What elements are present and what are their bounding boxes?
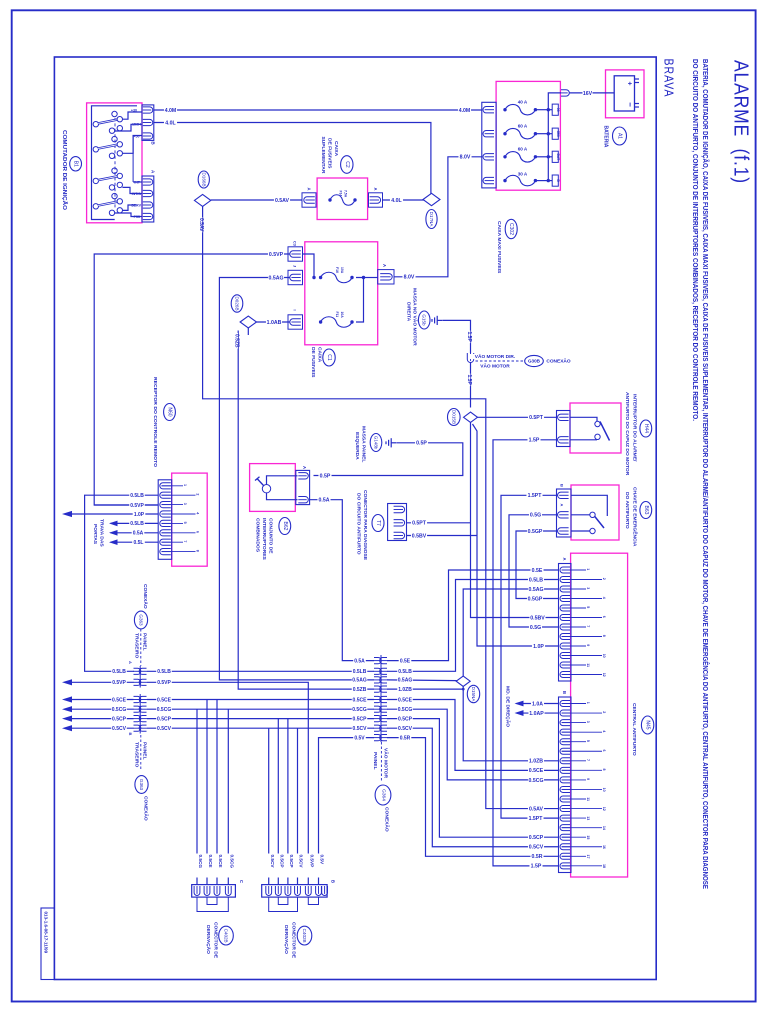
derivation connector C housing: [192, 885, 236, 898]
labels above derivation connector B: [266, 854, 272, 878]
painel traseiro pair 0.5LB: [134, 668, 141, 674]
N45 connector B housing: [559, 697, 572, 873]
svg-text:N45: N45: [645, 720, 651, 729]
svg-text:D015B: D015B: [451, 410, 456, 424]
svg-text:0.5E: 0.5E: [400, 658, 411, 664]
svg-text:1: 1: [183, 484, 187, 486]
N45 designator: [641, 716, 653, 734]
wire 0.5CG tap to C pin4: [227, 709, 229, 884]
wire 0.5CP tap to B pin3: [287, 719, 289, 885]
junction pair 0.5CE/0.5CE: [374, 696, 381, 702]
wire 4.0M ignition to maxi fuse: [154, 109, 482, 111]
svg-text:BATERIA: BATERIA: [603, 126, 609, 148]
svg-text:16: 16: [602, 845, 606, 849]
svg-text:14: 14: [602, 826, 606, 830]
wire 0.5PT D015B to H44: [478, 416, 557, 418]
labels above derivation connector C: [194, 854, 200, 878]
svg-text:H44: H44: [643, 424, 649, 433]
painel interface line B: [139, 694, 141, 734]
svg-text:DERIVAÇÃO: DERIVAÇÃO: [205, 925, 212, 954]
svg-text:0.5CE: 0.5CE: [112, 697, 127, 703]
svg-text:P55: P55: [134, 215, 140, 219]
svg-text:SUPLEMENTAR: SUPLEMENTAR: [320, 137, 326, 174]
svg-text:SERV: SERV: [131, 203, 141, 207]
svg-text:2: 2: [196, 493, 200, 495]
G363 dashed link bottom: [140, 735, 142, 771]
C2 designator: [341, 156, 353, 174]
svg-text:T7: T7: [375, 520, 381, 526]
svg-text:0.5AV: 0.5AV: [198, 218, 204, 232]
svg-text:CONEXÃO: CONEXÃO: [546, 358, 571, 365]
ignition switch designator B1: [70, 157, 82, 171]
wire 0.5AG C1 to junction: [219, 278, 374, 680]
wire 1.0P N60 pin4 arrow trava das portas: [70, 513, 159, 515]
connector diamond D15NA: [456, 676, 470, 686]
svg-text:D15NA: D15NA: [471, 687, 476, 703]
svg-text:C302: C302: [508, 223, 514, 235]
remote receiver N60 box: [172, 473, 208, 566]
svg-text:30 A: 30 A: [518, 171, 528, 176]
wire 0.5LB N60 pin2 to painel traseiro: [85, 495, 159, 671]
svg-text:ESQUERDA: ESQUERDA: [354, 432, 360, 460]
svg-text:17: 17: [586, 855, 590, 859]
svg-text:0.5VP: 0.5VP: [130, 503, 144, 509]
N45 pin B3: [560, 720, 570, 726]
wire 0.5GP B63 to central A4: [516, 531, 559, 599]
svg-text:B: B: [331, 880, 336, 883]
N60 pin housing: [158, 480, 172, 560]
wire 0.5CG junction to central B9: [387, 709, 559, 780]
svg-text:0.5CG: 0.5CG: [352, 707, 367, 713]
svg-text:0.5R: 0.5R: [532, 854, 543, 860]
svg-text:G30B: G30B: [528, 359, 541, 364]
connector diamond D015B: [464, 412, 478, 422]
N60 pin 6: [160, 530, 171, 536]
svg-text:COMUTADOR DE IGNIÇÃO: COMUTADOR DE IGNIÇÃO: [61, 130, 68, 210]
svg-text:8: 8: [196, 550, 200, 552]
svg-text:9: 9: [586, 644, 590, 646]
C1 pin J2: [288, 270, 303, 284]
svg-text:0.5V: 0.5V: [354, 735, 365, 741]
maxi fuse pin 3: [483, 154, 494, 160]
painel traseiro pair 0.5CE: [134, 696, 141, 702]
svg-text:1.5P: 1.5P: [529, 438, 540, 444]
svg-text:0.5LB: 0.5LB: [130, 493, 144, 499]
maxi fuse pin 1: [483, 107, 494, 113]
svg-text:0.5CP: 0.5CP: [353, 716, 368, 722]
svg-text:0.5G: 0.5G: [530, 513, 541, 519]
H44 switch symbol: [570, 417, 597, 421]
designator G148b: [370, 434, 382, 452]
battery designator A1: [613, 127, 627, 145]
designator G363 top: [134, 611, 147, 629]
svg-text:0.5ZB: 0.5ZB: [353, 687, 367, 693]
svg-text:0.5CE: 0.5CE: [208, 855, 213, 868]
svg-text:0.5VP: 0.5VP: [157, 680, 171, 686]
N45 pin B7: [560, 758, 570, 764]
N45 pin B1: [560, 701, 570, 707]
svg-text:D17NA: D17NA: [429, 212, 434, 228]
svg-text:J: J: [293, 265, 297, 267]
svg-text:0.5CV: 0.5CV: [112, 726, 127, 732]
svg-text:0.5LB: 0.5LB: [130, 521, 144, 527]
svg-text:F16: F16: [335, 267, 339, 273]
svg-text:A: A: [382, 264, 387, 267]
designator C402B right: [297, 926, 312, 945]
svg-text:0.5CP: 0.5CP: [157, 716, 172, 722]
svg-text:+: +: [626, 81, 633, 85]
svg-text:1: 1: [586, 702, 590, 704]
C2 right pin A: [370, 197, 381, 203]
N45 pin A3: [560, 586, 570, 592]
combined switches B62 box: [250, 464, 296, 512]
svg-text:INT/A: INT/A: [132, 192, 142, 196]
svg-text:CONEXÃO: CONEXÃO: [143, 796, 150, 821]
svg-text:15/54: 15/54: [132, 123, 141, 127]
svg-text:G364: G364: [381, 789, 387, 801]
svg-text:MASSA NO VÃO MOTOR: MASSA NO VÃO MOTOR: [412, 288, 419, 346]
designator G15b: [418, 311, 430, 329]
ignition switch internal wires: [122, 112, 141, 119]
wire 4.0L C2 to D17NA: [383, 199, 424, 201]
svg-text:0.5CE: 0.5CE: [398, 697, 413, 703]
svg-text:1.0A: 1.0A: [532, 701, 543, 707]
wire D026B stem: [238, 326, 248, 331]
N45 pin B9: [560, 777, 570, 783]
svg-text:1: 1: [586, 568, 590, 570]
svg-text:0.5CE: 0.5CE: [353, 697, 368, 703]
painel traseiro pair 0.5CP: [134, 716, 141, 722]
svg-text:4: 4: [196, 512, 200, 514]
svg-text:8.0V: 8.0V: [460, 155, 471, 161]
derivation connector C bridges: [207, 897, 217, 904]
svg-text:0.5CV: 0.5CV: [398, 726, 413, 732]
svg-text:DE FUSIVEIS: DE FUSIVEIS: [310, 347, 316, 378]
svg-text:0.5GP: 0.5GP: [528, 529, 543, 535]
svg-text:0.5V: 0.5V: [320, 855, 325, 866]
B63 switch symbol: [571, 495, 607, 516]
svg-text:0.5BV: 0.5BV: [530, 615, 545, 621]
N60 pin 8: [160, 549, 171, 555]
ignition switch stage 4 contacts: [93, 204, 98, 209]
svg-text:3: 3: [586, 721, 590, 723]
svg-text:C402B: C402B: [224, 929, 229, 943]
svg-text:C2: C2: [344, 161, 350, 168]
N60 pin 7: [160, 539, 171, 545]
svg-text:8: 8: [602, 769, 606, 771]
ignition switch stage 2 contacts: [93, 147, 98, 152]
svg-text:1.5P: 1.5P: [531, 864, 542, 870]
svg-text:1.5P: 1.5P: [466, 332, 472, 343]
svg-text:1.0ZB: 1.0ZB: [398, 687, 412, 693]
designator D026B: [231, 295, 243, 312]
svg-text:30: 30: [556, 108, 560, 112]
C1 pin I1: [288, 315, 303, 329]
wire 0.5P G148b to B62 pin A: [314, 443, 463, 476]
svg-text:C50: C50: [556, 131, 560, 137]
wire 0.5R junction to central B17: [387, 738, 559, 857]
svg-text:0.5GP: 0.5GP: [528, 596, 543, 602]
svg-text:0.5CP: 0.5CP: [280, 855, 285, 868]
central antifurto N45 box: [571, 553, 628, 877]
svg-text:4: 4: [602, 730, 606, 732]
svg-text:6: 6: [196, 531, 200, 533]
connector diamond D166B: [194, 194, 210, 206]
svg-text:60 A: 60 A: [518, 123, 528, 128]
svg-text:0.5LB: 0.5LB: [398, 669, 412, 675]
wire battery 16V: [569, 92, 614, 94]
N45 pin B10: [560, 786, 570, 792]
svg-text:B: B: [128, 733, 133, 736]
svg-text:A: A: [562, 558, 567, 561]
connector diamond D17NA: [423, 193, 440, 205]
svg-text:G15b: G15b: [422, 314, 427, 326]
svg-text:BRAVA: BRAVA: [662, 59, 676, 98]
svg-text:1.5P: 1.5P: [466, 375, 472, 386]
wire 0.5VP N60 pin3: [94, 504, 158, 506]
wire 0.5VP painel row: [70, 681, 134, 683]
svg-text:0.5P: 0.5P: [320, 473, 331, 479]
designator D17NA: [426, 210, 437, 229]
svg-text:0.5E: 0.5E: [532, 568, 543, 574]
svg-text:5: 5: [183, 522, 187, 524]
wire 0.5CE junction to central B8: [387, 700, 559, 771]
svg-text:N60: N60: [167, 407, 173, 416]
svg-text:0.5CE: 0.5CE: [157, 697, 172, 703]
svg-text:CENTRAL ANTIFURTO: CENTRAL ANTIFURTO: [631, 703, 637, 756]
svg-text:F11: F11: [335, 312, 339, 318]
svg-text:BATERIA, COMUTADOR DE IGNIÇÃO,: BATERIA, COMUTADOR DE IGNIÇÃO, CAIXA DE …: [701, 59, 710, 889]
C1 designator: [323, 349, 335, 366]
svg-text:8: 8: [602, 635, 606, 637]
junction pair 0.5CG/0.5CG: [374, 706, 381, 712]
svg-text:0.5A: 0.5A: [133, 531, 144, 537]
svg-text:C: C: [239, 880, 244, 883]
svg-text:0.5CG: 0.5CG: [398, 707, 413, 713]
designator C402B left: [219, 926, 234, 945]
svg-text:DO CIRCUITO ANTIFURTO: DO CIRCUITO ANTIFURTO: [356, 493, 362, 555]
svg-text:A: A: [373, 188, 378, 191]
svg-text:10: 10: [602, 788, 606, 792]
svg-text:D026B: D026B: [235, 296, 240, 310]
derivation connector B bridges: [278, 897, 288, 904]
svg-text:−: −: [626, 102, 635, 107]
painel interface line A: [139, 666, 141, 688]
svg-text:0.5CG: 0.5CG: [157, 707, 172, 713]
N45 pin B13: [560, 815, 570, 821]
N45 pin A11: [560, 662, 570, 668]
svg-text:0.5LB: 0.5LB: [157, 669, 171, 675]
ground G148b massa painel esquerda: [385, 441, 387, 444]
svg-text:0.5VP: 0.5VP: [269, 252, 284, 258]
wire 0.5LB painel to junction: [147, 670, 374, 672]
wire 0.5CP junction to central B15: [387, 719, 559, 838]
diagnostic connector T7 housing: [388, 504, 407, 541]
svg-text:CONEXÃO: CONEXÃO: [384, 807, 391, 832]
wire D015B down to 0.5BV row: [471, 423, 559, 618]
N45 pin A5: [560, 605, 570, 611]
svg-text:CAIXA: CAIXA: [333, 141, 339, 157]
svg-text:60 A: 60 A: [518, 147, 528, 152]
painel traseiro pair 0.5VP: [134, 679, 141, 685]
svg-text:0.5LB: 0.5LB: [529, 577, 543, 583]
svg-text:1.5PT: 1.5PT: [529, 816, 544, 822]
maxi fuse internal bus: [548, 93, 561, 181]
H44 designator: [640, 420, 652, 437]
B62 pin housing: [296, 470, 310, 504]
page border inner frame: [54, 57, 656, 980]
svg-text:CONECTOR DE: CONECTOR DE: [291, 922, 297, 959]
C1 pin C3: [288, 247, 303, 261]
svg-text:16V: 16V: [583, 91, 593, 97]
svg-text:0.5CP: 0.5CP: [398, 716, 413, 722]
svg-text:4.0L: 4.0L: [391, 198, 402, 204]
svg-text:4.0L: 4.0L: [165, 120, 176, 126]
N45 pin A6: [560, 615, 570, 621]
wire 0.5V junction row to connector B pin6: [319, 738, 375, 885]
svg-text:+30: +30: [131, 108, 137, 112]
B63 designator: [640, 502, 652, 519]
N45 pin B5: [560, 739, 570, 745]
painel traseiro pair 0.5CV: [134, 725, 141, 731]
svg-text:VÃO MOTOR DIR.: VÃO MOTOR DIR.: [475, 353, 515, 360]
N45 pin B18: [560, 863, 570, 869]
svg-text:0.5CP: 0.5CP: [112, 716, 127, 722]
wire 0.5E junction to central A1: [387, 570, 559, 661]
svg-text:4.0M: 4.0M: [165, 108, 177, 114]
junction pair 0.5CV/0.5CV: [374, 725, 381, 731]
wire 1.0A central B1 arrow md de direcao: [517, 703, 559, 705]
wire 0.5LB junction to central A2: [387, 580, 559, 672]
battery A1 box: [606, 70, 645, 118]
svg-text:6: 6: [602, 616, 606, 618]
H44 pin housing: [557, 411, 571, 447]
svg-text:4: 4: [602, 597, 606, 599]
N45 pin A1: [560, 567, 570, 573]
svg-text:15: 15: [586, 835, 590, 839]
svg-text:C1: C1: [326, 354, 332, 361]
connector diamond D026B: [240, 316, 256, 328]
wire 1.0AB C1 to D026B: [256, 321, 289, 323]
svg-text:0.5CV: 0.5CV: [157, 726, 172, 732]
svg-text:BAT: BAT: [556, 153, 560, 161]
svg-text:3: 3: [183, 503, 187, 505]
N60 pin 1: [160, 483, 171, 489]
maxi fuse F4 30A: [503, 179, 506, 182]
svg-text:40 A: 40 A: [518, 99, 528, 104]
svg-text:0.5CV: 0.5CV: [529, 845, 544, 851]
svg-text:ANTIFURTO DO CAPUZ DO MOTOR: ANTIFURTO DO CAPUZ DO MOTOR: [624, 392, 630, 476]
svg-text:INTERRUPTORES: INTERRUPTORES: [261, 518, 267, 560]
wire 0.5CP tap to B pin2: [277, 719, 279, 885]
designator G363 bottom: [135, 776, 148, 794]
svg-text:0.5CE: 0.5CE: [218, 855, 223, 868]
svg-text:0.5A: 0.5A: [319, 498, 330, 504]
svg-text:PAINEL: PAINEL: [372, 752, 378, 770]
svg-text:7: 7: [183, 540, 187, 542]
svg-text:0.5CE: 0.5CE: [529, 768, 544, 774]
wire 0.5ZB D026B to junction: [247, 328, 249, 335]
designator G364: [375, 785, 391, 805]
svg-text:7: 7: [586, 625, 590, 627]
svg-text:CONECTOR DE: CONECTOR DE: [213, 922, 219, 959]
ignition pin housing A: [142, 176, 154, 222]
svg-text:6: 6: [602, 749, 606, 751]
battery feed terminal: [560, 90, 569, 96]
svg-text:TRASEIRO: TRASEIRO: [133, 742, 139, 767]
svg-text:5: 5: [586, 606, 590, 608]
wire 4.0L ignition to D17NA: [154, 123, 431, 194]
svg-text:F14: F14: [339, 191, 343, 197]
svg-text:0.5CV: 0.5CV: [299, 855, 304, 869]
svg-text:A: A: [302, 466, 307, 469]
ignition switch inner frame: [92, 106, 138, 220]
derivation connector B housing: [262, 885, 327, 898]
wire 0.5CV tap to B pin4: [297, 728, 299, 884]
wire 0.5AV D166B down and across to central B12: [203, 206, 559, 808]
svg-text:0.5G: 0.5G: [530, 625, 541, 631]
svg-text:PAINEL: PAINEL: [142, 742, 148, 760]
svg-text:INTERRUPTOR DO ALARME/: INTERRUPTOR DO ALARME/: [632, 394, 638, 462]
designator D015B: [448, 409, 461, 426]
svg-text:ALARME (f.1): ALARME (f.1): [730, 60, 752, 184]
maxi fuse pin 2: [483, 131, 494, 137]
C1 fuse F11 10A: [319, 320, 322, 323]
wire 1.5P ground to D015B with inline connector: [442, 320, 470, 353]
svg-text:0.5PT: 0.5PT: [529, 415, 544, 421]
N60 pin 2: [160, 492, 171, 498]
svg-text:0.5CG: 0.5CG: [112, 707, 127, 713]
svg-text:C402B: C402B: [302, 929, 307, 943]
N45 pin A8: [560, 634, 570, 640]
wire 0.5G B63 to central A7: [509, 515, 559, 627]
svg-text:A: A: [560, 504, 565, 507]
svg-text:2: 2: [602, 578, 606, 580]
svg-text:CONEXÃO: CONEXÃO: [142, 584, 149, 609]
N45 pin B8: [560, 767, 570, 773]
svg-text:0.5ZB: 0.5ZB: [234, 334, 240, 348]
ignition pin housing B: [142, 105, 154, 140]
svg-text:TRASEIRO: TRASEIRO: [133, 633, 139, 658]
maxi fuse box C302: [496, 81, 560, 190]
N45 pin A7: [560, 624, 570, 630]
maxi fuse box pin housing: [482, 102, 496, 188]
ignition switch mechanical link dashed: [114, 118, 116, 208]
wire 0.5CE tap to C pin2: [206, 700, 208, 885]
wire 0.5BV T7 to bus: [407, 535, 478, 537]
N45 pin B2: [560, 710, 570, 716]
G363 dashed link top: [140, 629, 142, 666]
N45 pin A12: [560, 672, 570, 678]
svg-text:4.0M: 4.0M: [459, 108, 471, 114]
wire 1.0ZB junction row: [387, 688, 463, 690]
svg-text:1.0P: 1.0P: [533, 644, 544, 650]
svg-text:12: 12: [602, 807, 606, 811]
C1 fuse F16 10A: [319, 276, 322, 279]
wire 0.5CE tap to C pin3: [216, 700, 218, 885]
wire 1.5P H44 to central B18: [493, 440, 559, 866]
wire 0.5CV tap to B pin1: [268, 728, 270, 884]
svg-text:DE FUSIVEIS: DE FUSIVEIS: [327, 138, 333, 169]
svg-text:0.5AG: 0.5AG: [269, 275, 284, 281]
svg-text:PAINEL: PAINEL: [142, 633, 148, 651]
wire 1.0ZB D15NA down to central B7: [463, 686, 558, 760]
maxi fuse F1 40A: [503, 108, 506, 111]
N45 pin A4: [560, 596, 570, 602]
svg-text:B1: B1: [73, 161, 79, 167]
wire 0.5AV D166B to C2: [211, 199, 302, 201]
svg-text:0.5CV: 0.5CV: [270, 855, 275, 869]
